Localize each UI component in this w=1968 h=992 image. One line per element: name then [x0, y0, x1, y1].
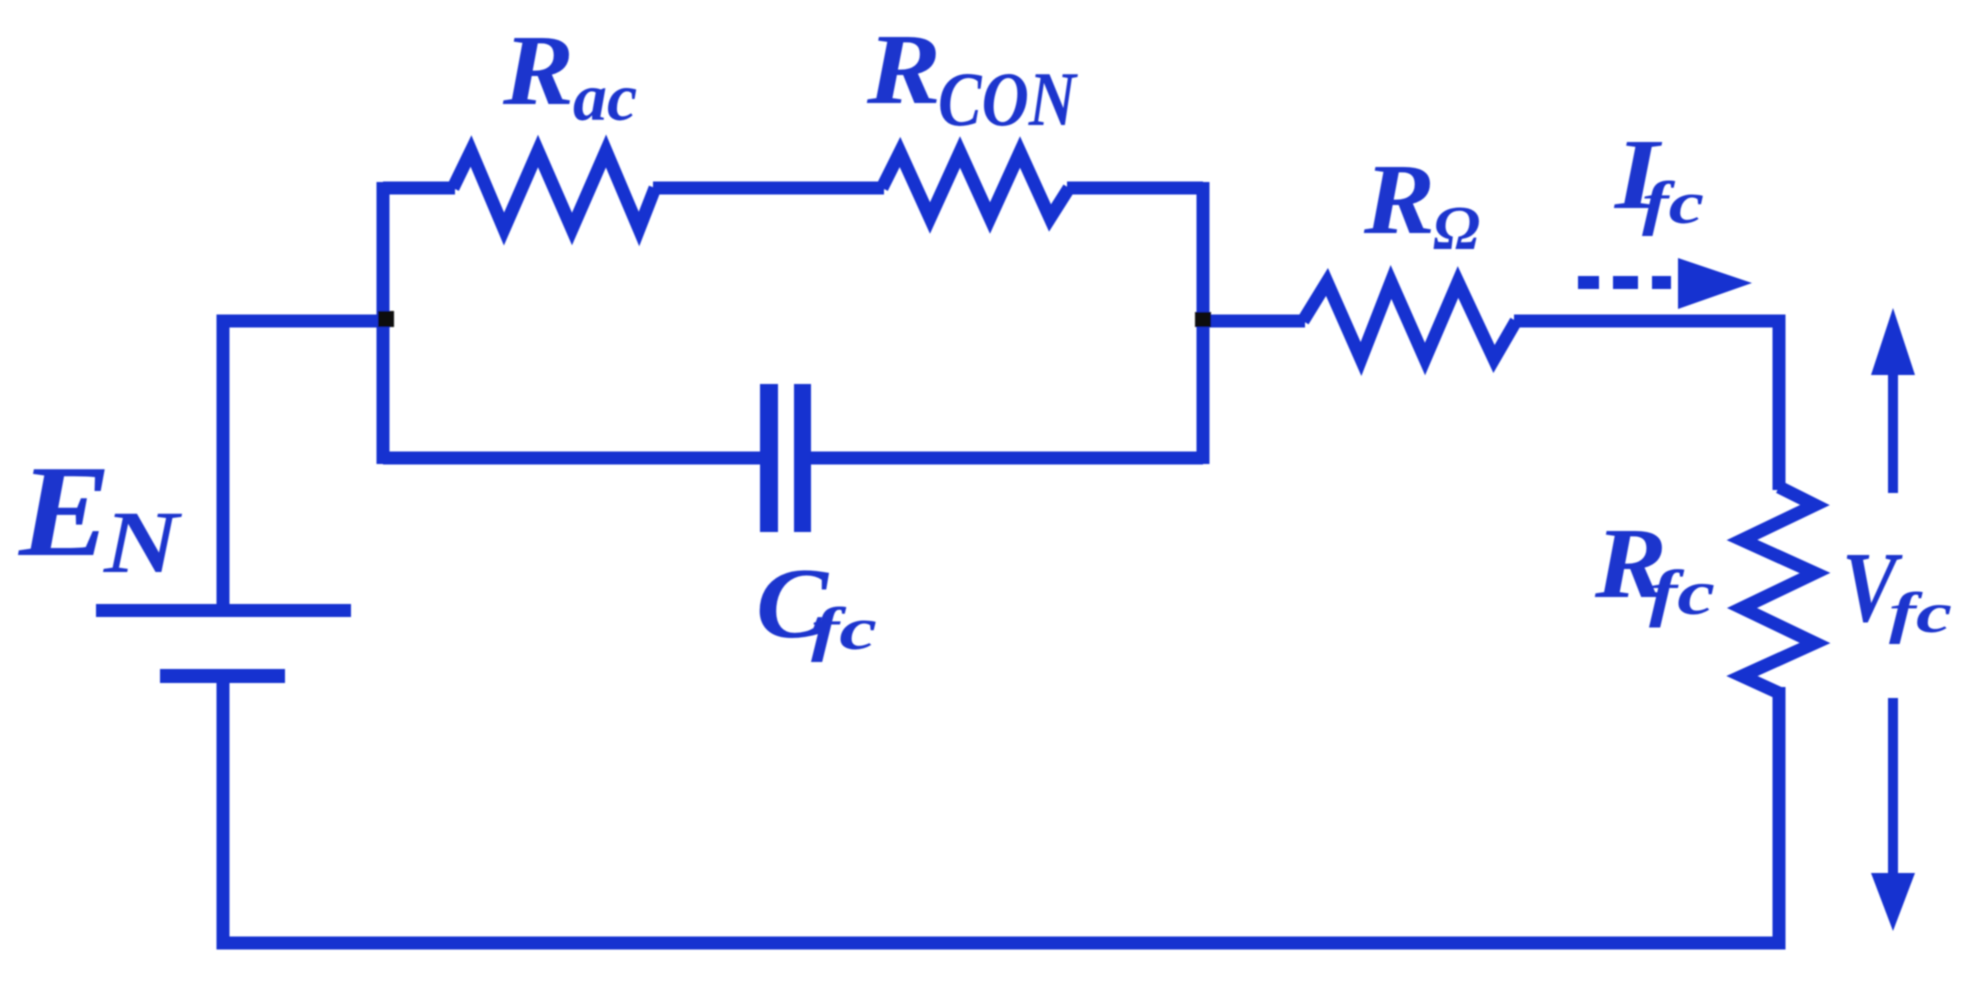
- svg-text:CON: CON: [938, 56, 1078, 142]
- wire bottom branch left: [383, 452, 762, 465]
- wire top branch right: [1067, 182, 1203, 195]
- battery E_N long plate: [96, 604, 351, 617]
- voltage arrow V_fc down: [1871, 698, 1915, 931]
- wire top branch middle: [653, 182, 884, 195]
- wire parallel-block left vertical: [377, 182, 390, 464]
- svg-text:fc: fc: [811, 596, 877, 662]
- svg-text:fc: fc: [1642, 170, 1704, 236]
- svg-text:R: R: [1363, 143, 1435, 255]
- resistor R_ac: [453, 151, 655, 229]
- svg-text:E: E: [18, 439, 111, 584]
- battery E_N short plate: [160, 669, 285, 683]
- wire battery top to node A: [223, 321, 390, 610]
- wire bottom loop (battery negative to R_fc bottom): [223, 676, 1779, 943]
- svg-text:ac: ac: [573, 59, 637, 135]
- resistor R_Omega: [1303, 282, 1516, 359]
- resistor R_fc: [1742, 487, 1815, 693]
- svg-text:R: R: [502, 14, 574, 126]
- svg-text:R: R: [866, 13, 941, 125]
- capacitor C_fc right plate: [794, 384, 811, 532]
- capacitor C_fc left plate: [760, 384, 778, 532]
- wire R_Omega to right corner down: [1514, 321, 1779, 490]
- resistor R_CON: [882, 152, 1069, 218]
- svg-text:N: N: [103, 494, 182, 592]
- node B junction dot: [1195, 312, 1211, 327]
- voltage arrow V_fc up: [1871, 308, 1915, 493]
- node A junction dot: [378, 311, 394, 327]
- svg-text:fc: fc: [1889, 582, 1952, 645]
- current arrow I_fc dashed: [1578, 258, 1752, 309]
- wire parallel-block right vertical: [1197, 182, 1210, 464]
- svg-text:Ω: Ω: [1433, 195, 1480, 263]
- wire bottom branch right: [809, 452, 1203, 465]
- svg-text:fc: fc: [1649, 557, 1715, 628]
- wire top branch left: [383, 182, 455, 195]
- wire node B to R_Omega: [1203, 315, 1305, 328]
